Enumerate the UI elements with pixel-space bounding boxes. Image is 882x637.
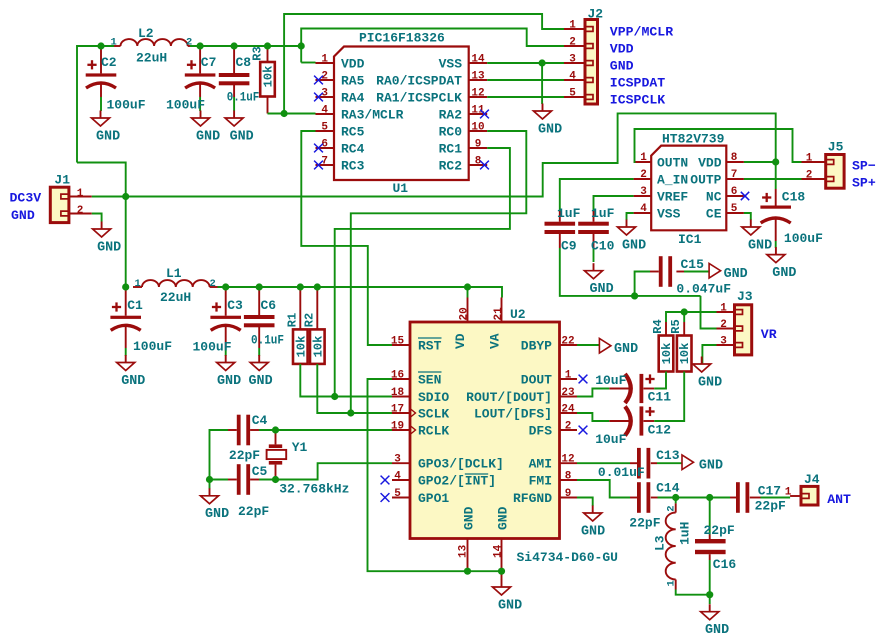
svg-text:R5: R5 (669, 319, 683, 333)
svg-text:GND: GND (748, 238, 772, 253)
capacitor C5 (228, 464, 269, 519)
svg-text:1uF: 1uF (591, 206, 615, 221)
svg-text:C7: C7 (201, 55, 217, 70)
svg-text:22pF: 22pF (755, 499, 786, 514)
junction C4 C5 ground drop (206, 476, 213, 483)
junction rail / R1 (297, 283, 304, 290)
svg-text:J3: J3 (737, 289, 753, 304)
svg-text:0.047uF: 0.047uF (676, 282, 731, 297)
junction VDD rail / C2 (97, 42, 104, 49)
capacitor C10 (578, 196, 633, 262)
svg-text:21: 21 (493, 307, 505, 321)
svg-text:GND: GND (581, 524, 605, 539)
svg-text:1: 1 (720, 303, 727, 315)
svg-text:8: 8 (731, 152, 738, 164)
wire VDD to U1 pin1 (301, 62, 315, 64)
svg-text:4: 4 (640, 203, 647, 215)
svg-text:10k: 10k (312, 336, 326, 358)
ground GND below C1 (117, 355, 146, 389)
svg-text:4: 4 (321, 105, 328, 117)
wire to C17 (710, 497, 730, 499)
ground GND below RFGND (581, 506, 605, 540)
junction J3 pin1 / R5 (681, 308, 688, 315)
svg-text:SP−: SP− (852, 159, 876, 174)
wire RC5 to U2 RST (301, 131, 392, 345)
svg-text:C13: C13 (656, 448, 680, 463)
wire J3 pin1 to R4 R5 (666, 312, 717, 322)
junction rail / C3 (222, 283, 229, 290)
svg-text:VREF: VREF (657, 190, 688, 205)
capacitor C9 (545, 179, 634, 254)
capacitor C11 (577, 373, 671, 405)
svg-text:6: 6 (731, 186, 738, 198)
wire VPP/MCLR net (284, 14, 564, 114)
svg-text:13: 13 (471, 71, 485, 83)
svg-text:RST: RST (418, 339, 442, 354)
inductor L3 1uH (653, 498, 693, 590)
wire J1 pin2 to ground (92, 214, 102, 222)
wire FMI to C14 (577, 480, 630, 498)
svg-text:R1: R1 (285, 313, 299, 327)
ground GND label at C13 (682, 455, 723, 474)
wire R3 bottom to MCLR (268, 113, 285, 115)
svg-text:RA4: RA4 (341, 91, 365, 106)
ground GND label at C15 (709, 263, 748, 282)
wire SEN to ground rail (368, 379, 502, 571)
svg-text:VSS: VSS (657, 207, 681, 222)
svg-text:NC: NC (706, 190, 722, 205)
svg-text:GND: GND (97, 240, 121, 255)
svg-text:1: 1 (640, 152, 647, 164)
wire IC1 VSS to ground (627, 213, 634, 220)
wire antenna node link (676, 497, 710, 499)
inductor L2 (111, 26, 193, 66)
wire C9 to volume node (560, 248, 701, 296)
svg-text:12: 12 (471, 88, 484, 100)
svg-text:0.1uF: 0.1uF (227, 90, 260, 105)
net label VPP/MCLR (610, 24, 673, 39)
wire RFGND to ground (577, 498, 593, 507)
svg-text:U2: U2 (510, 307, 526, 322)
svg-text:100uF: 100uF (166, 97, 205, 112)
svg-text:3: 3 (569, 54, 576, 66)
svg-text:9: 9 (475, 139, 482, 151)
audio amplifier IC1 HT82V739 (634, 132, 744, 248)
svg-text:DOUT: DOUT (521, 373, 552, 388)
capacitor C15 (635, 256, 732, 296)
svg-text:10k: 10k (295, 336, 309, 358)
wire VA/VD rail (218, 287, 503, 298)
svg-text:VR: VR (761, 327, 777, 342)
ground GND below C10 (585, 263, 614, 297)
net label ICSPCLK (610, 92, 665, 107)
svg-text:3: 3 (720, 336, 727, 348)
ground GND below L3 C16 (701, 604, 729, 637)
capacitor C12 (577, 406, 671, 447)
net label ANT (827, 492, 851, 507)
svg-text:GND: GND (196, 129, 220, 144)
svg-text:9: 9 (565, 488, 572, 500)
svg-text:AMI: AMI (529, 457, 552, 472)
junction crystal node / Y1 bottom (272, 476, 279, 483)
svg-text:GND: GND (610, 58, 634, 73)
svg-text:J4: J4 (804, 472, 820, 487)
ground GND below IC1 CE (742, 220, 772, 254)
svg-text:1: 1 (806, 153, 813, 165)
resistor R3 10k (251, 46, 276, 114)
svg-text:22pF: 22pF (704, 523, 735, 538)
svg-text:2: 2 (666, 505, 678, 511)
svg-text:RC4: RC4 (341, 142, 365, 157)
svg-text:VSS: VSS (439, 57, 463, 72)
wire R1 bottom to SDIO (300, 364, 334, 397)
svg-text:ANT: ANT (827, 492, 851, 507)
capacitor C18 (760, 162, 823, 248)
junction rail / C1-L1 (122, 283, 129, 290)
svg-text:C8: C8 (236, 55, 252, 70)
svg-text:C1: C1 (127, 298, 143, 313)
svg-text:J1: J1 (54, 173, 70, 188)
svg-text:GND: GND (230, 129, 254, 144)
svg-text:RC3: RC3 (341, 159, 365, 174)
junction rail / R2 (314, 283, 321, 290)
svg-text:C3: C3 (227, 298, 243, 313)
svg-text:14: 14 (493, 544, 505, 558)
svg-text:RA5: RA5 (341, 74, 365, 89)
capacitor C1 (110, 287, 172, 356)
inductor L1 (133, 266, 218, 305)
svg-text:20: 20 (458, 307, 470, 320)
svg-text:C15: C15 (681, 257, 705, 272)
junction RCLK / Y1 top (272, 426, 279, 433)
svg-text:1uF: 1uF (557, 206, 581, 221)
svg-text:1: 1 (565, 370, 572, 382)
junction ground rail / pin14 (498, 568, 505, 575)
capacitor C17 (730, 482, 790, 513)
svg-text:100uF: 100uF (193, 340, 232, 355)
svg-text:5: 5 (321, 122, 328, 134)
svg-text:GND: GND (496, 506, 511, 530)
svg-text:GND: GND (217, 374, 241, 389)
svg-text:C2: C2 (101, 55, 117, 70)
wire C12 to R5 bottom (654, 372, 684, 422)
svg-text:10uF: 10uF (595, 373, 626, 388)
connector J2 (564, 7, 603, 105)
net label DC3V (10, 191, 42, 206)
svg-text:RC1: RC1 (439, 142, 463, 157)
svg-text:L3: L3 (653, 535, 668, 551)
svg-text:1: 1 (111, 36, 117, 48)
wire C5 left to ground drop (210, 479, 229, 481)
svg-text:GPO1: GPO1 (418, 491, 449, 506)
svg-text:1: 1 (321, 54, 328, 66)
svg-text:18: 18 (391, 387, 405, 399)
wire OUTP to J5 pin2 (744, 178, 802, 180)
junction rail / C6 (256, 283, 263, 290)
svg-text:5: 5 (394, 488, 401, 500)
lead R4 top (665, 322, 667, 336)
wire VD riser (467, 287, 469, 298)
svg-text:GND: GND (724, 267, 748, 282)
junction VDD rail / C8 (231, 42, 238, 49)
svg-text:L2: L2 (138, 26, 154, 41)
junction ground node below C16 (706, 591, 713, 598)
wire RC0 to SCLK (351, 131, 527, 413)
wire J3 pin3 to ground (702, 345, 716, 363)
svg-text:VDD: VDD (610, 41, 634, 56)
junction SCLK junction (347, 409, 354, 416)
net label ICSPDAT (610, 75, 665, 90)
svg-text:GND: GND (699, 459, 723, 474)
wire ICSPDAT net (487, 79, 564, 81)
svg-text:22pF: 22pF (229, 448, 260, 463)
capacitor C7 (166, 46, 216, 112)
ground GND below C8 (225, 111, 254, 145)
svg-text:22uH: 22uH (160, 290, 191, 305)
svg-text:DC3V: DC3V (10, 191, 42, 206)
lead pin14 to ground (501, 571, 503, 580)
svg-text:22pF: 22pF (238, 504, 269, 519)
svg-text:CE: CE (706, 207, 722, 222)
wire J1 pin1 to DC3V rail (92, 196, 126, 198)
wire VDD to J2 and U1 (301, 29, 564, 63)
svg-text:2: 2 (210, 278, 216, 290)
svg-text:SCLK: SCLK (418, 407, 449, 422)
svg-text:RA2: RA2 (439, 108, 463, 123)
svg-text:RC2: RC2 (439, 159, 463, 174)
junction rail / VD riser (464, 283, 471, 290)
wire VDD rail L2 to junction (190, 45, 301, 47)
connector J3 (717, 289, 753, 355)
svg-text:RA3/MCLR: RA3/MCLR (341, 108, 404, 123)
ground GND below J3 pin3 (693, 357, 722, 391)
capacitor C2 (86, 46, 146, 113)
junction volume node junction (631, 292, 638, 299)
svg-text:2: 2 (806, 170, 813, 182)
svg-text:C10: C10 (591, 239, 615, 254)
svg-text:12: 12 (561, 454, 574, 466)
crystal Y1 32.768kHz (267, 430, 350, 497)
svg-text:RFGND: RFGND (513, 491, 552, 506)
wire ground node lead (709, 595, 711, 604)
microcontroller U1 PIC16F18326 (316, 31, 488, 197)
ground GND below C18 (767, 247, 797, 281)
svg-text:J5: J5 (828, 140, 844, 155)
wire L3 bottom to ground node (676, 590, 710, 595)
svg-text:GND: GND (698, 375, 722, 390)
junction VDD rail / R3 (264, 42, 271, 49)
no-connect marks on U2 pins 1,2,4,5 (381, 375, 588, 502)
svg-text:GPO3/[DCLK]: GPO3/[DCLK] (418, 457, 504, 472)
svg-text:22pF: 22pF (629, 516, 660, 531)
svg-text:16: 16 (391, 370, 404, 382)
svg-text:23: 23 (561, 387, 575, 399)
connector J5 (802, 140, 845, 189)
svg-text:GND: GND (622, 238, 646, 253)
ground GND below U2 (493, 580, 523, 614)
svg-text:GND: GND (538, 122, 562, 137)
resistor R2 10k (302, 287, 325, 364)
svg-text:100uF: 100uF (107, 98, 146, 113)
junction SDIO junction (331, 393, 338, 400)
wire VDD rail top left (77, 46, 114, 163)
svg-text:24: 24 (561, 404, 575, 416)
svg-text:PIC16F18326: PIC16F18326 (359, 31, 445, 46)
svg-text:C6: C6 (261, 298, 277, 313)
svg-text:GND: GND (249, 374, 273, 389)
svg-text:Si4734-D60-GU: Si4734-D60-GU (517, 550, 618, 565)
no-connect mark on IC1 pin 6 (741, 192, 749, 200)
svg-text:2: 2 (640, 169, 647, 181)
svg-text:OUTP: OUTP (690, 173, 721, 188)
svg-text:15: 15 (391, 336, 405, 348)
svg-text:SP+: SP+ (852, 176, 876, 191)
radio receiver U2 Si4734-D60-GU (391, 298, 618, 570)
wire DC3V down to L1 (125, 197, 127, 288)
svg-text:10uF: 10uF (595, 432, 626, 447)
svg-text:2: 2 (77, 205, 84, 217)
capacitor C8 (219, 46, 260, 111)
svg-text:C14: C14 (656, 481, 680, 496)
svg-text:2: 2 (720, 319, 727, 331)
svg-text:1: 1 (77, 188, 84, 200)
connector J1 (50, 173, 92, 223)
wire volume node to J3 pin2 (701, 296, 717, 329)
svg-text:GND: GND (590, 282, 614, 297)
wire RC1 to SDIO (335, 148, 510, 397)
net label GND at J2 (610, 58, 634, 73)
wire C11 to R4 bottom (654, 372, 666, 389)
svg-text:14: 14 (471, 54, 485, 66)
wire DC3V rail to amplifier (126, 113, 776, 196)
svg-text:GND: GND (462, 506, 477, 530)
svg-text:R2: R2 (302, 313, 316, 327)
svg-text:C16: C16 (713, 557, 737, 572)
ground GND below J1 pin2 (93, 222, 122, 256)
net label GND at J1 (11, 208, 35, 223)
junction VDD rail / riser to J2 (298, 42, 305, 49)
capacitor C6 (244, 287, 284, 356)
svg-text:1: 1 (569, 20, 576, 32)
wire IC1 VDD wire (744, 161, 776, 163)
svg-text:RC0: RC0 (439, 125, 463, 140)
svg-text:C11: C11 (648, 390, 672, 405)
svg-text:1: 1 (666, 580, 678, 586)
junction ground rail / pin13 (464, 568, 471, 575)
net label VR (761, 327, 777, 342)
net label VDD (610, 41, 634, 56)
net label SP- (852, 159, 876, 174)
svg-text:7: 7 (731, 169, 738, 181)
svg-text:L1: L1 (166, 266, 182, 281)
svg-text:10k: 10k (678, 343, 692, 365)
svg-text:C18: C18 (782, 189, 806, 204)
svg-text:C4: C4 (252, 413, 268, 428)
ground GND below C4 C5 (201, 488, 230, 522)
resistor R1 10k (285, 287, 308, 364)
ground GND below C7 (192, 111, 221, 145)
wire GND drop from J2 pin3 (541, 63, 543, 104)
svg-text:GND: GND (121, 374, 145, 389)
wire OUTN to J5 pin1 (634, 129, 802, 162)
capacitor C4 (210, 413, 268, 477)
svg-text:0.01uF: 0.01uF (598, 465, 645, 480)
svg-text:1: 1 (135, 278, 141, 290)
svg-text:4: 4 (394, 471, 401, 483)
capacitor C14 (629, 481, 679, 531)
net label SP+ (852, 176, 876, 191)
junction VSS / GND drop (539, 59, 546, 66)
svg-text:10k: 10k (660, 343, 674, 365)
svg-text:3: 3 (394, 454, 401, 466)
junction J1 pin1 / DC3V rail (122, 193, 129, 200)
svg-text:1uH: 1uH (678, 522, 693, 545)
svg-text:U1: U1 (393, 181, 409, 196)
junction VDD rail / C7 (197, 42, 204, 49)
svg-text:GPO2/[INT]: GPO2/[INT] (418, 474, 496, 489)
svg-text:J2: J2 (588, 7, 604, 22)
svg-text:R3: R3 (251, 46, 265, 60)
ground GND below C2 (92, 111, 121, 145)
svg-text:RC5: RC5 (341, 125, 365, 140)
svg-text:Y1: Y1 (292, 440, 308, 455)
svg-text:22: 22 (561, 336, 574, 348)
svg-text:SDIO: SDIO (418, 390, 449, 405)
svg-text:OUTN: OUTN (657, 156, 688, 171)
svg-text:ROUT/[DOUT]: ROUT/[DOUT] (466, 390, 552, 405)
ground GND below C3 (217, 355, 241, 389)
svg-text:10: 10 (471, 122, 484, 134)
ground GND below IC1 VSS (618, 220, 647, 254)
connector J4 (785, 472, 820, 505)
wire DBYP to ground label (577, 344, 599, 346)
svg-text:RA0/ICSPDAT: RA0/ICSPDAT (376, 74, 462, 89)
svg-text:C17: C17 (758, 484, 781, 499)
svg-text:VDD: VDD (698, 156, 722, 171)
svg-text:13: 13 (458, 544, 470, 558)
svg-text:1: 1 (785, 487, 792, 499)
svg-text:HT82V739: HT82V739 (662, 132, 725, 147)
junction antenna node / C16 (706, 494, 713, 501)
svg-text:100uF: 100uF (784, 231, 823, 246)
svg-text:100uF: 100uF (133, 339, 172, 354)
svg-text:IC1: IC1 (678, 232, 702, 247)
wire crystal to GPO3 (259, 463, 392, 479)
svg-text:22uH: 22uH (136, 51, 167, 66)
svg-text:2: 2 (565, 421, 572, 433)
svg-text:DBYP: DBYP (521, 339, 552, 354)
svg-text:19: 19 (391, 421, 404, 433)
ground GND below J2 (534, 104, 563, 138)
svg-text:VD: VD (453, 333, 468, 349)
svg-text:C5: C5 (252, 464, 268, 479)
svg-text:GND: GND (772, 266, 796, 281)
svg-text:ICSPCLK: ICSPCLK (610, 92, 665, 107)
wire ground drop below C5 (209, 480, 211, 489)
svg-text:GND: GND (11, 208, 35, 223)
svg-text:ICSPDAT: ICSPDAT (610, 75, 665, 90)
wire R2 bottom to SCLK (317, 364, 351, 413)
wire DC3V riser from J1 (77, 163, 126, 197)
wire ICSPCLK net (487, 96, 564, 98)
svg-text:GND: GND (205, 507, 229, 522)
svg-text:17: 17 (391, 404, 404, 416)
ground GND below C6 (249, 355, 273, 389)
svg-text:SEN: SEN (418, 373, 441, 388)
wire VSS to J2 pin3 (487, 62, 564, 64)
svg-text:10k: 10k (262, 66, 276, 88)
junction MCLR / R3 (281, 110, 288, 117)
